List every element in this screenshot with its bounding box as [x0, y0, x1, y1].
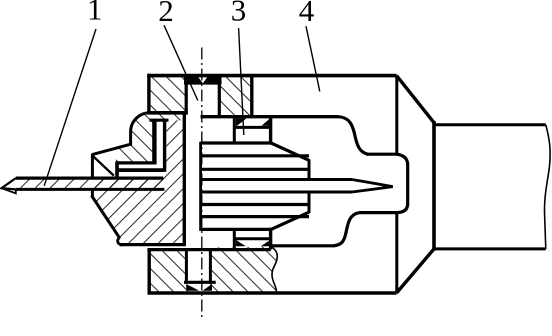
svg-text:3: 3 [231, 0, 247, 27]
svg-text:2: 2 [158, 0, 174, 28]
svg-text:4: 4 [299, 0, 315, 28]
svg-text:1: 1 [87, 0, 103, 27]
